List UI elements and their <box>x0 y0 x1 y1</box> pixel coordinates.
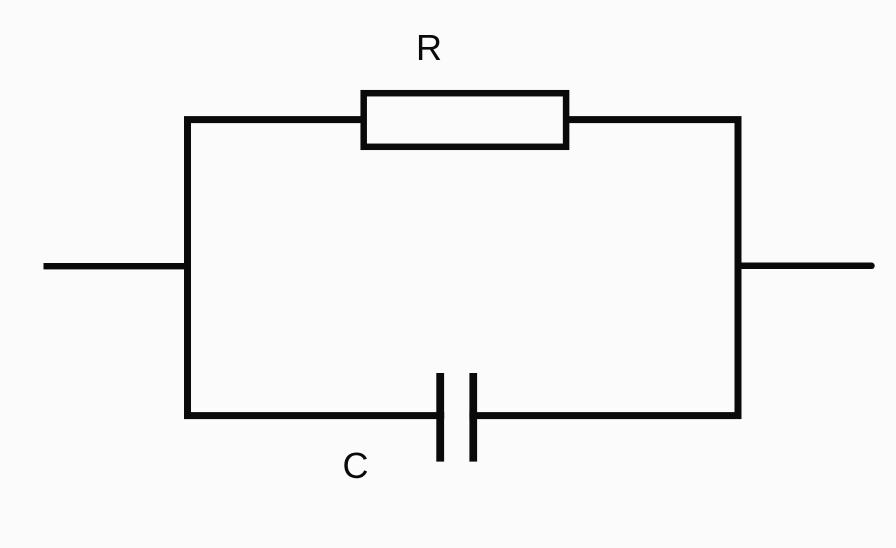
svg-text:C: C <box>343 445 369 486</box>
svg-text:R: R <box>416 27 442 68</box>
